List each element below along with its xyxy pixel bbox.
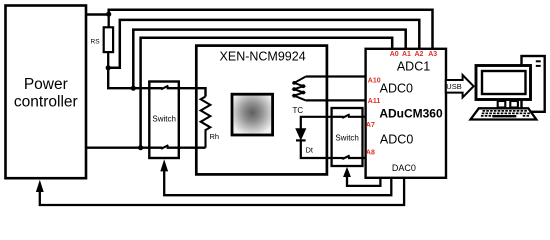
wire TC top to pin A10	[306, 75, 366, 77]
svg-text:A1: A1	[402, 51, 411, 58]
computer tower	[522, 56, 545, 112]
svg-text:Rh: Rh	[210, 132, 220, 141]
control wire DAC0 to switch S2 with arrow	[347, 176, 380, 186]
resistor RS lead top	[108, 14, 110, 27]
ADuCM360 microcontroller box U1	[366, 49, 446, 178]
monitor outer frame	[476, 66, 531, 100]
switch S2 upper lever	[342, 114, 349, 118]
wire S1 lower rail to Rh bottom	[167, 146, 206, 148]
switch S2 lower lever	[342, 156, 349, 160]
USB block arrow	[446, 75, 474, 97]
sensor die photo blob	[232, 94, 273, 135]
wire power controller to node RS top	[86, 13, 109, 15]
wire S2 rail segment into box lower	[333, 157, 344, 159]
diode Dt cathode wire to S2 lower rail	[301, 140, 333, 158]
node junction W4 on lower rail	[138, 145, 143, 150]
wire W2 RS bottom to pin A2	[108, 20, 419, 68]
svg-text:DAC0: DAC0	[392, 163, 416, 173]
svg-text:ADC1: ADC1	[397, 59, 430, 73]
keyboard keys row 2	[482, 113, 530, 115]
power controller box	[6, 6, 87, 179]
keyboard	[471, 108, 537, 119]
wire power controller to switch S1 lower rail	[86, 146, 162, 148]
svg-text:Dt: Dt	[306, 145, 314, 154]
diode Dt	[296, 129, 306, 140]
resistor RS	[104, 27, 113, 52]
svg-text:TC: TC	[293, 106, 304, 115]
wire S1 upper rail to Rh top	[167, 88, 206, 96]
diode Dt anode wire	[301, 117, 333, 130]
switch box S1	[149, 82, 179, 159]
wire S2 rail segment into box upper	[333, 116, 344, 118]
wire W3 upper rail to pin A1	[133, 30, 405, 89]
thermocouple TC coil	[294, 77, 306, 101]
svg-text:ADC0: ADC0	[380, 82, 413, 96]
diode Dt cathode bar	[296, 139, 306, 141]
monitor stand left	[498, 101, 506, 108]
wire S2 lower rail to pin A8	[348, 157, 366, 159]
switch S1 upper lever	[161, 86, 168, 90]
svg-text:Switch: Switch	[152, 115, 176, 124]
node junction W3 on upper rail	[131, 86, 136, 91]
tower drive slots	[536, 60, 541, 62]
keyboard spacebar	[492, 115, 516, 117]
wire S2 upper rail to pin A7	[348, 116, 366, 118]
node junction RS top	[106, 12, 111, 17]
node junction RS bottom	[106, 65, 111, 70]
wire W4 lower rail to pin A0	[141, 38, 393, 148]
svg-text:A3: A3	[428, 51, 437, 58]
svg-text:A11: A11	[368, 98, 381, 105]
switch box S2	[332, 108, 363, 166]
svg-text:controller: controller	[14, 94, 78, 111]
svg-text:Switch: Switch	[335, 133, 359, 142]
svg-text:ADC0: ADC0	[380, 133, 413, 147]
svg-text:A2: A2	[415, 51, 424, 58]
control wire DAC0 to switch S1 with arrow	[164, 170, 391, 196]
keyboard keys row 3	[481, 115, 529, 117]
control wire DAC0 to power controller with arrow	[40, 178, 404, 205]
keyboard keys row 1	[483, 110, 527, 112]
monitor stand right	[510, 101, 518, 108]
svg-text:ADuCM360: ADuCM360	[379, 107, 443, 121]
svg-text:A0: A0	[390, 51, 399, 58]
svg-text:A7: A7	[366, 122, 375, 129]
resistor Rh zigzag	[201, 97, 211, 148]
wire RS bottom down to switch S1 upper rail	[108, 68, 162, 88]
svg-text:A8: A8	[366, 149, 375, 156]
wire W1 node RS top to pin A3	[109, 10, 433, 49]
svg-text:USB: USB	[446, 82, 461, 91]
svg-text:RS: RS	[91, 39, 101, 46]
svg-text:Power: Power	[24, 76, 68, 93]
svg-text:XEN-NCM9924: XEN-NCM9924	[220, 49, 306, 63]
switch S1 lower lever	[161, 145, 168, 149]
resistor RS lead bottom	[107, 52, 109, 68]
XEN-NCM9924 module box	[196, 46, 327, 175]
monitor screen	[482, 71, 526, 94]
wire TC bottom to pin A11	[306, 99, 366, 101]
